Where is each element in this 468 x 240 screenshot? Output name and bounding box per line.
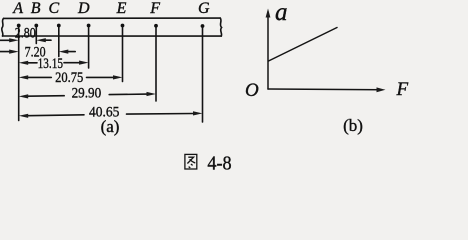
svg-text:(b): (b) <box>343 116 363 135</box>
svg-text:(a): (a) <box>101 117 120 136</box>
svg-text:4-8: 4-8 <box>207 152 231 171</box>
svg-text:2.80: 2.80 <box>15 24 36 41</box>
svg-text:C: C <box>48 0 59 17</box>
svg-text:F: F <box>396 79 409 100</box>
svg-text:O: O <box>245 80 259 101</box>
svg-text:E: E <box>116 0 127 17</box>
svg-text:F: F <box>149 0 160 17</box>
svg-text:B: B <box>31 0 41 17</box>
svg-text:G: G <box>198 0 210 17</box>
svg-text:D: D <box>77 0 90 17</box>
svg-text:A: A <box>12 0 23 17</box>
svg-text:29.90: 29.90 <box>72 85 102 102</box>
svg-text:20.75: 20.75 <box>55 69 83 85</box>
svg-text:a: a <box>275 0 288 26</box>
